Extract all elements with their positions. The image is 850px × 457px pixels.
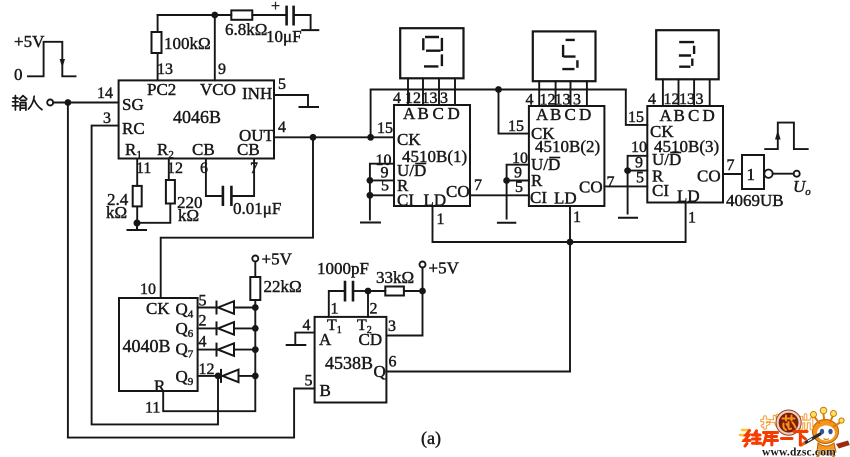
watermark text 维库一下 <box>745 431 808 447</box>
watermark magnifier circle <box>777 411 799 433</box>
node output terminal Uo <box>794 171 800 177</box>
wire CD pin 3 <box>386 291 422 336</box>
svg-text:D: D <box>579 105 591 124</box>
wire input to SG <box>53 102 118 104</box>
IC U4 4510B(3) <box>647 106 723 203</box>
input waveform symbol <box>28 42 76 77</box>
svg-text:B: B <box>550 105 561 124</box>
svg-text:4040B: 4040B <box>123 336 171 356</box>
wire RC to feedback <box>92 126 218 425</box>
capacitor C 0.01uF <box>223 187 232 205</box>
svg-text:1: 1 <box>747 165 756 184</box>
wire top rail <box>158 14 232 16</box>
svg-text:14: 14 <box>97 85 113 102</box>
wire +5V drop <box>422 268 424 292</box>
wire 33k to +5V node <box>404 290 423 292</box>
node 33k junction <box>419 288 426 295</box>
IC U3 4510B(2) <box>529 106 605 206</box>
node LD junction <box>567 239 574 246</box>
svg-text:6.8kΩ: 6.8kΩ <box>225 20 267 39</box>
watermark 芯 inside magnifier <box>783 416 796 431</box>
svg-text:CB: CB <box>237 140 260 159</box>
svg-text:5: 5 <box>278 76 286 93</box>
svg-text:10: 10 <box>140 281 156 298</box>
wire R2 pin 12 <box>137 159 170 223</box>
label 15 pin wire already in bus; wire U/D bracket (U2) <box>370 164 394 220</box>
node +5V terminal (33k) <box>420 262 426 268</box>
svg-text:D: D <box>703 106 715 125</box>
ground (R1) <box>128 223 147 230</box>
wire bubble to output <box>773 173 794 175</box>
overline D (U3) <box>550 157 560 159</box>
svg-text:+5V: +5V <box>14 32 45 51</box>
wire 6.8k to cap <box>252 14 285 16</box>
watermark speed lines <box>740 430 749 440</box>
svg-text:9: 9 <box>218 61 226 78</box>
svg-text:kΩ: kΩ <box>106 203 127 222</box>
svg-text:4069UB: 4069UB <box>726 191 784 210</box>
node R tie (U4) <box>624 167 631 174</box>
IC U1 4046B <box>119 80 274 158</box>
wire R1 pin 11 <box>136 159 138 224</box>
svg-text:2: 2 <box>370 301 378 318</box>
svg-text:CB: CB <box>192 140 215 159</box>
svg-text:LD: LD <box>554 189 577 208</box>
svg-text:22kΩ: 22kΩ <box>264 277 302 296</box>
svg-text:PC2: PC2 <box>147 80 176 99</box>
node Q4 tie <box>252 304 259 311</box>
ground (U4) <box>619 217 637 219</box>
svg-text:13: 13 <box>157 61 173 78</box>
wire input junction down <box>67 103 69 438</box>
svg-text:LD: LD <box>677 187 700 206</box>
gate U5 4069UB <box>742 155 764 189</box>
wires DS2 pins <box>539 81 587 106</box>
svg-text:CO: CO <box>446 182 470 201</box>
svg-text:4510B(2): 4510B(2) <box>535 137 600 156</box>
svg-text:3: 3 <box>388 318 396 335</box>
output waveform symbol <box>765 123 808 150</box>
wire A to ground <box>295 333 314 344</box>
svg-text:kΩ: kΩ <box>178 206 199 225</box>
svg-text:12: 12 <box>199 361 215 378</box>
svg-text:SG: SG <box>122 95 144 114</box>
watermark text 找芯片 <box>762 415 812 429</box>
svg-text:4538B: 4538B <box>325 353 373 373</box>
wire cap to ground <box>295 15 311 30</box>
wire CO3 to inverter <box>723 173 742 175</box>
wire diode common rail <box>163 300 255 411</box>
resistor R 2.4k <box>133 186 142 207</box>
svg-text:1000pF: 1000pF <box>317 259 369 278</box>
node R1 R2 junction <box>134 220 141 227</box>
node Q9 tie <box>252 373 259 380</box>
diode D1 <box>217 301 235 314</box>
wire OUT to 4040B CK <box>161 137 313 298</box>
svg-text:33kΩ: 33kΩ <box>376 268 414 287</box>
svg-text:11: 11 <box>136 160 151 177</box>
wire LD bus <box>433 203 686 372</box>
svg-text:10μF: 10μF <box>266 27 302 46</box>
svg-text:C: C <box>565 105 576 124</box>
wire Q4 output <box>198 307 256 309</box>
svg-text:+: + <box>271 0 280 15</box>
svg-text:RC: RC <box>122 119 145 138</box>
resistor R 22k <box>250 277 260 300</box>
svg-text:Q: Q <box>374 362 386 381</box>
svg-text:CK: CK <box>146 299 170 318</box>
wires DS3 pins <box>663 79 710 106</box>
node OUT branch B <box>367 134 374 141</box>
svg-text:R: R <box>154 377 166 396</box>
svg-text:CI: CI <box>397 191 414 210</box>
wire CB pin 6 <box>206 159 222 197</box>
wire CO1 to CI2 <box>470 194 529 196</box>
node CI tie (U2) <box>367 192 374 199</box>
wire Q6 output <box>198 327 256 329</box>
svg-text:INH: INH <box>242 84 272 103</box>
wire T2 pin 2 <box>367 291 369 317</box>
diode D3 <box>217 343 235 356</box>
display DS2 <box>533 31 596 81</box>
svg-text:15: 15 <box>377 120 393 137</box>
svg-text:(a): (a) <box>421 428 441 449</box>
svg-text:7: 7 <box>607 174 615 191</box>
svg-text:5: 5 <box>515 179 523 196</box>
wire bus down to CK2 <box>499 90 529 134</box>
wire bus down to CK3 <box>626 90 648 125</box>
svg-text:5: 5 <box>636 170 644 187</box>
svg-text:4046B: 4046B <box>173 107 221 127</box>
diode D4 <box>221 370 239 383</box>
svg-text:6: 6 <box>389 354 397 371</box>
ground (U3) <box>498 222 515 224</box>
svg-text:A: A <box>536 105 549 124</box>
ground (INH) <box>300 106 319 108</box>
wire 22k to +5V <box>254 262 256 278</box>
digit 5 (DS2) <box>562 40 577 69</box>
svg-text:CI: CI <box>652 181 669 200</box>
wire pin 9 riser <box>214 15 216 80</box>
svg-text:B: B <box>418 104 429 123</box>
node Q9 feedback tie <box>215 373 222 380</box>
watermark logo dzsc <box>740 407 850 457</box>
display DS1 <box>400 28 463 78</box>
label 输入 <box>12 96 42 111</box>
node input junction <box>65 99 72 106</box>
overline D (U2) <box>416 163 426 165</box>
svg-text:0: 0 <box>14 65 23 84</box>
svg-text:CO: CO <box>579 178 603 197</box>
node 输入 input terminal <box>47 100 53 106</box>
node Q7 tie <box>252 346 259 353</box>
ground (U2) <box>361 222 380 224</box>
wire CO2 to CI3 <box>604 185 647 187</box>
display DS3 <box>656 30 719 79</box>
svg-text:LD: LD <box>424 191 447 210</box>
node Q6 tie <box>252 325 259 332</box>
svg-text:4: 4 <box>278 119 286 136</box>
diode D2 <box>217 322 235 335</box>
svg-text:VCO: VCO <box>200 80 236 99</box>
wire U/D bracket (U4) <box>628 156 648 214</box>
svg-text:1: 1 <box>688 210 696 227</box>
capacitor C 10uF <box>287 7 294 24</box>
svg-text:4: 4 <box>303 317 311 334</box>
wire U/D bracket (U3) <box>507 165 529 219</box>
capacitor C 1000pF <box>345 282 353 300</box>
svg-text:10: 10 <box>631 139 647 156</box>
svg-text:CI: CI <box>530 188 547 207</box>
svg-text:+5V: +5V <box>429 259 460 278</box>
svg-text:A: A <box>319 330 332 349</box>
wire Q7 output <box>198 349 256 351</box>
watermark mascot <box>801 407 850 457</box>
svg-text:7: 7 <box>727 157 735 174</box>
node OUT branch A <box>310 134 317 141</box>
node inverter bubble <box>764 170 772 178</box>
digit 3 (DS3) <box>679 42 694 67</box>
node VCO junction <box>211 12 218 19</box>
svg-text:1: 1 <box>331 301 339 318</box>
svg-text:3: 3 <box>103 110 111 127</box>
svg-text:B: B <box>320 381 331 400</box>
resistor R 6.8k <box>231 10 252 19</box>
IC U6 4040B <box>119 298 198 391</box>
svg-text:+5V: +5V <box>262 250 293 269</box>
wire Q output <box>386 371 570 373</box>
node R tie (U3) <box>503 177 510 184</box>
wire CK bus top <box>371 90 626 138</box>
svg-text:0.01μF: 0.01μF <box>233 199 281 218</box>
wire INH to ground <box>274 95 308 106</box>
svg-text:1: 1 <box>437 211 445 228</box>
svg-text:A: A <box>403 104 416 123</box>
svg-text:D: D <box>448 104 460 123</box>
svg-text:4: 4 <box>199 334 207 351</box>
wire pin 13 riser <box>157 15 159 80</box>
ground (U7 A) <box>287 344 306 346</box>
svg-text:2: 2 <box>199 313 207 330</box>
svg-text:100kΩ: 100kΩ <box>164 34 211 53</box>
wire bottom bus to 4538B B <box>68 389 315 438</box>
svg-text:12: 12 <box>167 160 183 177</box>
wire T2 node to 33k <box>368 290 385 292</box>
resistor R 220k <box>166 180 175 204</box>
IC U2 4510B(1) <box>394 105 470 206</box>
svg-text:5: 5 <box>305 373 313 390</box>
wire Q9 output <box>198 375 256 377</box>
node T2 junction <box>365 288 372 295</box>
wire CB pin 7 <box>232 159 254 197</box>
svg-text:CO: CO <box>697 167 721 186</box>
svg-text:1: 1 <box>573 209 581 226</box>
svg-text:C: C <box>688 106 699 125</box>
svg-text:15: 15 <box>628 109 644 126</box>
svg-text:15: 15 <box>508 118 524 135</box>
wires DS1 pins <box>408 78 455 105</box>
node CK bus to chip2 <box>495 86 502 93</box>
svg-text:7: 7 <box>474 177 482 194</box>
svg-text:CD: CD <box>359 330 383 349</box>
IC U7 4538B <box>315 317 387 403</box>
node R tie (U2) <box>367 177 374 184</box>
node +5V terminal (22k) <box>252 256 258 262</box>
wire OUT to CK1 <box>274 136 394 138</box>
svg-text:6: 6 <box>200 160 208 177</box>
wire cap to T2 node <box>354 290 368 292</box>
resistor R 100k <box>152 32 162 53</box>
ground (10uF) <box>302 29 318 31</box>
svg-text:11: 11 <box>145 400 160 417</box>
svg-text:www.dzsc.com: www.dzsc.com <box>762 447 836 457</box>
svg-text:5: 5 <box>199 293 207 310</box>
svg-text:C: C <box>433 104 444 123</box>
resistor R 33k <box>385 287 404 296</box>
svg-text:B: B <box>674 106 685 125</box>
wire T1 pin 1 <box>329 291 344 317</box>
svg-text:7: 7 <box>250 160 258 177</box>
digit 9 (DS1) <box>423 37 442 66</box>
overline D (U4) <box>671 152 681 154</box>
